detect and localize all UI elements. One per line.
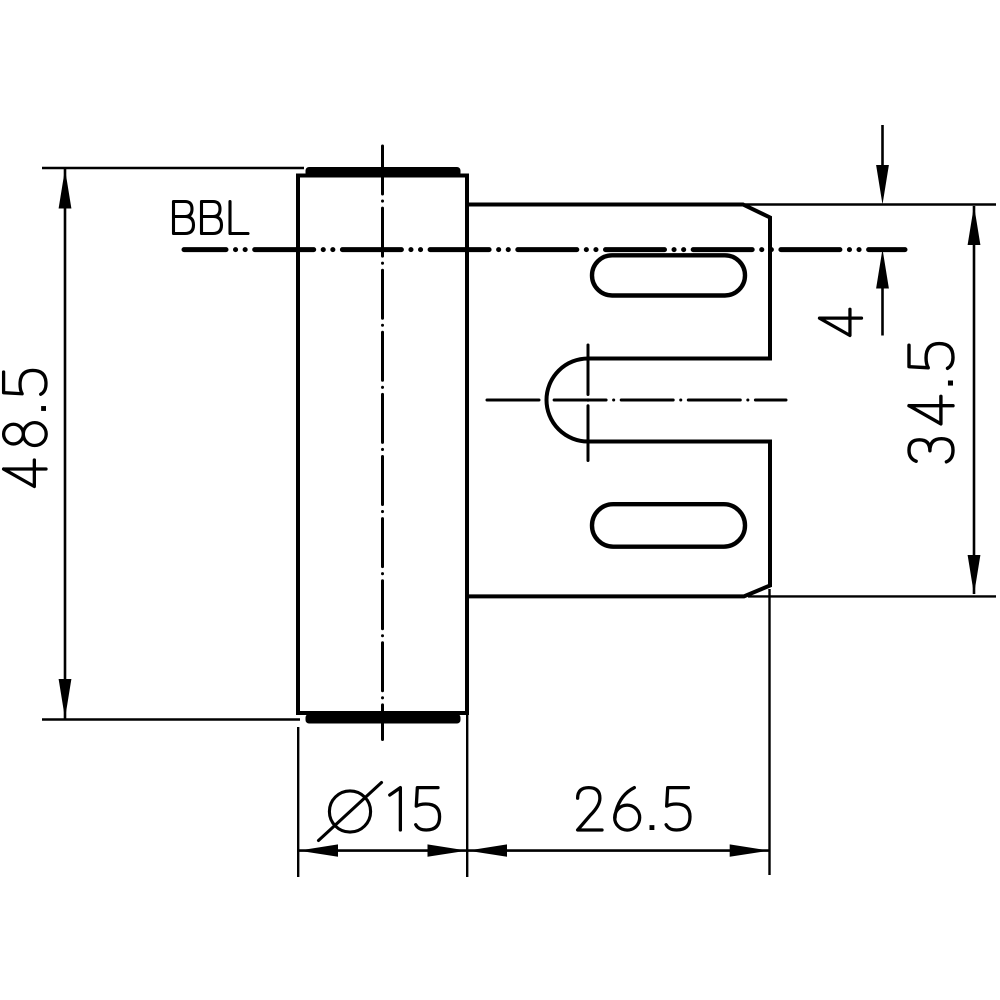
- extension line top: [42, 167, 304, 169]
- extension line right: [768, 589, 770, 875]
- arrowhead up: [968, 206, 981, 246]
- arrowhead left: [468, 844, 508, 856]
- barrel vertical centerline: [381, 146, 384, 740]
- barrel bottom cap (thick): [306, 714, 461, 724]
- arrowhead right: [428, 844, 468, 856]
- dimension line: [64, 169, 67, 719]
- extension line bottom: [748, 595, 996, 597]
- lower stem: [881, 289, 884, 336]
- arrowhead right: [730, 844, 770, 856]
- plate outline with chamfered right corners and right-opening fork notch: [467, 205, 770, 597]
- barrel top cap (thick): [306, 167, 461, 177]
- label 26.5: [578, 788, 690, 831]
- arrowhead down: [59, 679, 72, 719]
- arrowhead down: [876, 165, 889, 205]
- lower slotted hole: [592, 504, 745, 547]
- shared extension line: [466, 715, 468, 877]
- dimension line: [298, 849, 769, 852]
- barrel outline: [298, 176, 467, 714]
- arrowhead up: [59, 169, 72, 209]
- notch horizontal centerline: [487, 399, 786, 402]
- BBL label text: [174, 202, 249, 234]
- label 48.5 (rotated): [4, 370, 47, 486]
- diameter symbol: [329, 791, 370, 832]
- upper slotted hole: [592, 255, 745, 295]
- arrowhead left: [299, 844, 339, 856]
- upper stem: [881, 125, 884, 165]
- arrowhead down: [968, 555, 981, 595]
- arrowhead up: [876, 249, 889, 289]
- extension line top: [745, 203, 996, 205]
- dimension line: [973, 206, 976, 594]
- BBL phantom line: [184, 247, 905, 252]
- notch arc-center vertical centerline: [587, 345, 590, 461]
- label 34.5 (rotated): [909, 344, 953, 462]
- label 4 (rotated): [820, 309, 862, 335]
- label 15: [390, 788, 440, 830]
- extension line bottom: [42, 718, 300, 720]
- extension line left: [297, 727, 299, 877]
